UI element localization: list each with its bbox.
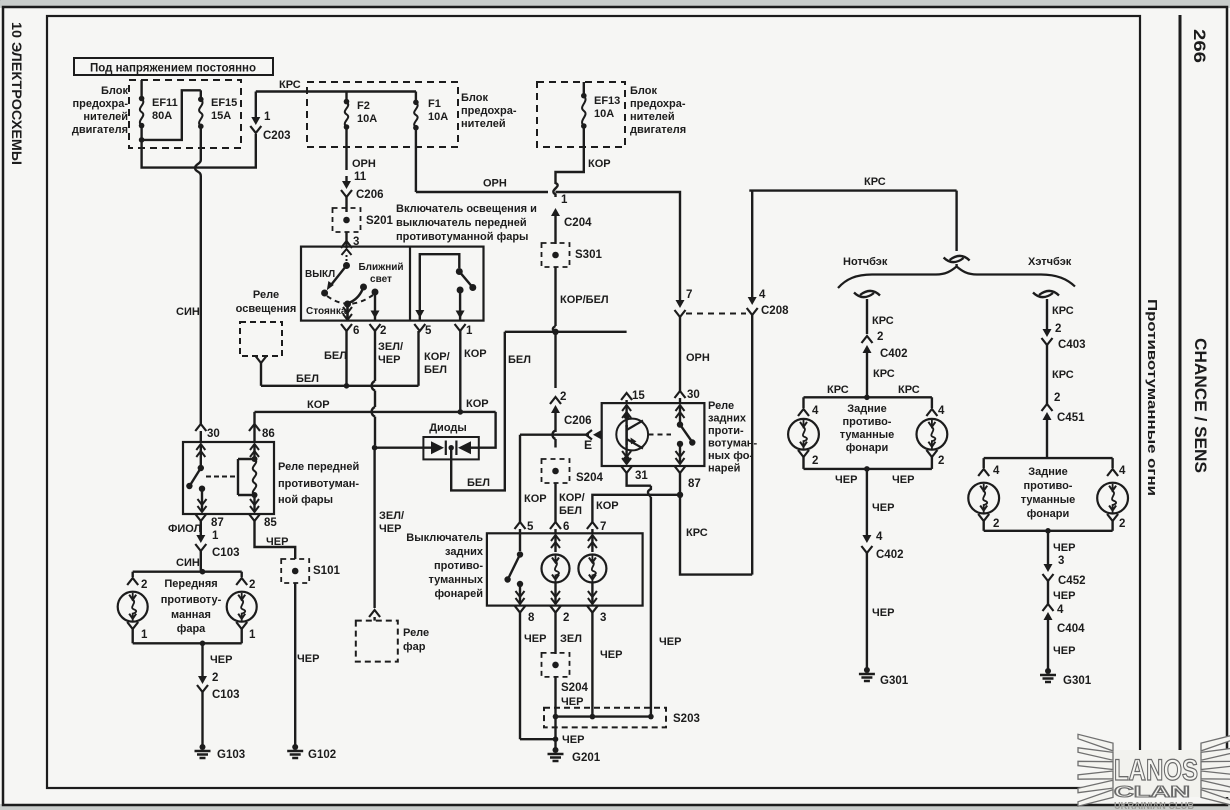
wire ORN F1 to C204 <box>415 128 417 192</box>
arrow into C206 <box>345 176 347 182</box>
wire C404 to G301 <box>1047 632 1049 669</box>
svg-text:1: 1 <box>561 194 568 206</box>
headlight switch box <box>301 247 484 321</box>
svg-text:C452: C452 <box>1058 575 1086 587</box>
svg-text:ВЫКЛ: ВЫКЛ <box>305 269 335 280</box>
svg-text:C103: C103 <box>212 547 240 559</box>
ground G201 <box>553 747 559 753</box>
break notchback <box>854 293 874 298</box>
arrow into C208 <box>751 196 753 298</box>
wire C206 jog over E <box>553 431 556 440</box>
svg-text:противотуманной фары: противотуманной фары <box>396 231 528 243</box>
wire EF11-EF15 link <box>142 90 201 140</box>
E arrow into relay <box>586 430 592 440</box>
svg-text:Задние: Задние <box>847 403 887 415</box>
connector C204 wave <box>553 183 557 197</box>
wire C203 bottom link <box>142 134 256 168</box>
wire S301 down KOR/BEL <box>554 267 556 326</box>
front fog lamp right <box>227 592 257 622</box>
connector hlamp L4 <box>978 469 989 476</box>
connector pin 6 <box>341 324 352 331</box>
front fog lamp left <box>118 592 148 622</box>
rear fog relay box <box>602 403 705 466</box>
svg-text:КРС: КРС <box>827 384 849 396</box>
switch arm <box>331 266 347 286</box>
relay sw contact top <box>198 465 204 471</box>
wire lamp top bus <box>804 396 932 398</box>
svg-text:10 ЭЛЕКТРОСХЕМЫ: 10 ЭЛЕКТРОСХЕМЫ <box>9 22 24 165</box>
svg-text:8: 8 <box>528 612 535 624</box>
headlight relay box (dashed) <box>356 621 398 662</box>
svg-text:манная: манная <box>171 609 211 621</box>
rear sw arm <box>509 555 521 579</box>
wire KOR/BEL through junction <box>553 326 556 332</box>
svg-text:ЧЕР: ЧЕР <box>1053 542 1075 554</box>
wire pin3r down <box>591 613 593 717</box>
svg-text:нарей: нарей <box>708 463 740 475</box>
svg-text:7: 7 <box>600 521 606 533</box>
wire ORN right run <box>556 192 681 196</box>
svg-text:Включатель освещения и: Включатель освещения и <box>396 203 537 215</box>
svg-text:2: 2 <box>563 612 569 624</box>
contact sw3 top <box>456 268 463 275</box>
svg-text:G103: G103 <box>217 749 245 761</box>
svg-text:проти-: проти- <box>708 425 744 437</box>
svg-text:85: 85 <box>264 517 277 529</box>
svg-text:двигателя: двигателя <box>72 124 128 136</box>
svg-text:КРС: КРС <box>1052 305 1074 317</box>
connector C452 <box>1043 574 1054 581</box>
svg-text:КОР/: КОР/ <box>559 492 585 504</box>
svg-text:266: 266 <box>1190 29 1209 63</box>
arrow sw right left leg <box>415 310 424 318</box>
fuse F1 10A <box>415 92 417 103</box>
svg-text:КОР: КОР <box>588 158 611 170</box>
svg-text:80A: 80A <box>152 110 172 122</box>
svg-text:КОР: КОР <box>464 348 487 360</box>
svg-text:Реле: Реле <box>708 400 734 412</box>
splice S201 <box>333 208 361 232</box>
relay dashed link <box>649 434 672 436</box>
connector 87r <box>675 466 686 473</box>
Q1 emitter out <box>625 445 627 459</box>
svg-text:4: 4 <box>1057 604 1064 616</box>
rear sw out <box>519 586 521 604</box>
svg-text:Передняя: Передняя <box>164 578 217 590</box>
connector C103 bottom <box>197 685 208 692</box>
wire fl left bot <box>131 629 133 643</box>
svg-text:EF15: EF15 <box>211 97 237 109</box>
wire lamp right bot <box>931 457 933 469</box>
wire lamp bottom bus <box>804 468 932 470</box>
wire C403 down <box>1046 345 1048 404</box>
wire break to brace <box>955 264 957 267</box>
svg-text:ЧЕР: ЧЕР <box>600 649 622 661</box>
svg-text:туманные: туманные <box>1021 494 1076 506</box>
wire fl right drop <box>240 572 242 577</box>
wire KRS top bus <box>256 90 416 92</box>
wire stoyanka out <box>346 306 348 320</box>
rear ind lamp 2 arrows <box>591 535 593 552</box>
svg-text:ЧЕР: ЧЕР <box>561 696 583 708</box>
svg-text:1: 1 <box>249 629 256 641</box>
connector 30 <box>195 424 206 431</box>
Q1 emitter <box>627 439 643 449</box>
splice S204 mid <box>542 459 570 483</box>
svg-text:противоту-: противоту- <box>161 594 222 606</box>
wire to G103 <box>201 692 203 745</box>
svg-text:ной фары: ной фары <box>278 494 333 506</box>
wire F2 down (ORN) <box>345 127 347 170</box>
contact sw3 out <box>457 287 464 294</box>
wire fl right bot <box>240 629 242 643</box>
wire hlamp right bot <box>1111 521 1113 531</box>
ground G301 notchback <box>864 667 870 673</box>
svg-text:2: 2 <box>380 325 386 337</box>
svg-text:свет: свет <box>370 274 392 285</box>
relay sw2 out arrow <box>679 444 681 464</box>
svg-text:G301: G301 <box>880 675 909 687</box>
wire pin1 out <box>459 290 461 312</box>
svg-text:фар: фар <box>403 641 426 653</box>
connector hlamp R2 <box>1107 514 1118 521</box>
switch arm common <box>342 249 352 255</box>
relay coil <box>237 459 239 495</box>
svg-text:CHANCE / SENS: CHANCE / SENS <box>1191 338 1209 473</box>
wire diode right link <box>471 447 479 449</box>
svg-text:G102: G102 <box>308 749 336 761</box>
svg-text:КРС: КРС <box>898 384 920 396</box>
wire EF11 feed <box>140 80 142 99</box>
title box Pod napryazheniem postoyanno <box>74 58 273 75</box>
connector lamp R2 <box>926 450 937 457</box>
arrow ORN down to 7 <box>679 196 681 301</box>
svg-text:Стоянка: Стоянка <box>306 306 347 317</box>
arrow hatch to C452 <box>1047 555 1049 565</box>
svg-text:C206: C206 <box>356 189 384 201</box>
svg-text:противо-: противо- <box>1024 480 1073 492</box>
engine fuse box (dashed) <box>129 80 241 148</box>
wire KRS right run <box>749 189 956 191</box>
svg-text:10A: 10A <box>428 111 448 123</box>
svg-text:1: 1 <box>466 325 473 337</box>
wire C204 to S301 <box>554 226 556 244</box>
wire lamp left bot <box>802 457 804 469</box>
svg-text:СИН: СИН <box>176 306 200 318</box>
rear ind lamp1 out <box>554 583 556 604</box>
svg-text:БЕЛ: БЕЛ <box>324 350 347 362</box>
svg-text:Задние: Задние <box>1028 466 1068 478</box>
contact VYKL <box>321 290 328 297</box>
diode D2 <box>458 441 471 454</box>
wire S204 to pin6r <box>554 483 556 522</box>
svg-text:ЗЕЛ: ЗЕЛ <box>560 633 582 645</box>
svg-text:4: 4 <box>876 531 883 543</box>
svg-text:ЧЕР: ЧЕР <box>524 633 546 645</box>
connector C206 mid <box>550 397 561 404</box>
top grey scan band <box>0 0 1230 8</box>
svg-text:ЧЕР: ЧЕР <box>892 474 914 486</box>
svg-text:Блок: Блок <box>101 85 128 97</box>
svg-text:5: 5 <box>527 521 534 533</box>
wire EF15 down with jog <box>195 126 201 180</box>
connector C403 <box>1042 338 1053 345</box>
wire C103 to lamps <box>200 551 202 572</box>
connector 85 <box>249 514 260 521</box>
relay sw arm <box>191 468 201 485</box>
rear sw contact in <box>519 533 521 551</box>
rear fog lamp left (hatchback) <box>968 483 999 514</box>
connector pin 2 <box>370 324 381 331</box>
connector lamp L4 <box>798 409 809 416</box>
svg-text:7: 7 <box>686 289 692 301</box>
svg-text:10A: 10A <box>357 113 377 125</box>
svg-text:туманные: туманные <box>840 429 895 441</box>
rear fog switch box <box>487 533 643 605</box>
svg-text:ОРН: ОРН <box>352 158 376 170</box>
svg-text:Нотчбэк: Нотчбэк <box>843 256 888 268</box>
arrow C204 up <box>554 215 556 226</box>
connector fl R2 <box>236 578 247 585</box>
relay sw2 contact bot <box>677 441 683 447</box>
relay 86 out arrow <box>253 495 255 512</box>
arrow E left <box>0 0 1 1</box>
svg-text:ЧЕР: ЧЕР <box>378 354 400 366</box>
svg-text:1: 1 <box>141 629 148 641</box>
wire C402l to G301 <box>866 553 868 668</box>
svg-text:ЧЕР: ЧЕР <box>562 734 584 746</box>
svg-text:2: 2 <box>560 391 566 403</box>
svg-text:КРС: КРС <box>279 79 301 91</box>
wire SIN down to 30 <box>200 180 202 424</box>
svg-text:СИН: СИН <box>176 557 200 569</box>
wire diode output BEL <box>451 332 505 491</box>
connector lamp R4 <box>926 409 937 416</box>
connector 87 <box>195 514 206 521</box>
wire KOR right bend <box>479 412 496 448</box>
svg-text:ЧЕР: ЧЕР <box>379 523 401 535</box>
wire EF13 down (KOR) <box>556 126 584 184</box>
svg-text:4: 4 <box>759 289 766 301</box>
svg-text:6: 6 <box>353 325 359 337</box>
svg-text:C451: C451 <box>1057 412 1085 424</box>
svg-text:ОРН: ОРН <box>686 352 710 364</box>
svg-text:ЗЕЛ/: ЗЕЛ/ <box>378 341 403 353</box>
wire ORN down to relay30 <box>679 322 681 391</box>
wire front lamp top bus <box>133 571 242 573</box>
bottom grey scan band <box>0 804 1230 810</box>
svg-text:туманных: туманных <box>428 574 483 586</box>
wire BEL horizontal <box>261 385 419 387</box>
svg-text:фонарей: фонарей <box>434 588 483 600</box>
svg-text:КРС: КРС <box>873 368 895 380</box>
svg-text:31: 31 <box>635 470 648 482</box>
switch right section path <box>420 254 460 313</box>
svg-text:C204: C204 <box>564 217 592 229</box>
svg-text:фонари: фонари <box>846 442 888 454</box>
connector pin 5 <box>414 324 425 331</box>
wire 31 down <box>627 473 651 486</box>
Q1 base bar <box>625 416 627 427</box>
svg-text:КРС: КРС <box>686 527 708 539</box>
wire KOR to 86 <box>253 431 255 442</box>
svg-text:87: 87 <box>688 478 701 490</box>
svg-text:КРС: КРС <box>1052 369 1074 381</box>
svg-text:S203: S203 <box>673 713 700 725</box>
arrow C206 mid up <box>554 412 556 432</box>
connector 3r <box>587 606 598 613</box>
wire notch down <box>866 469 868 528</box>
svg-text:ФИОЛ: ФИОЛ <box>168 523 201 535</box>
connector pin 3 <box>341 241 352 248</box>
fuse EF15 15A <box>200 90 202 99</box>
svg-text:G201: G201 <box>572 752 601 764</box>
fuse EF11 80A <box>139 96 145 102</box>
ground G301 hatchback <box>1045 668 1051 674</box>
svg-text:ЧЕР: ЧЕР <box>835 474 857 486</box>
svg-text:нителей: нителей <box>83 111 128 123</box>
svg-text:CLAN: CLAN <box>1114 784 1190 801</box>
connector C208 <box>747 308 758 315</box>
wire pin2 down <box>374 331 376 381</box>
svg-text:освещения: освещения <box>236 303 297 315</box>
svg-text:противотуман-: противотуман- <box>278 478 359 490</box>
relay sw2 arm <box>680 425 692 441</box>
svg-text:КОР: КОР <box>596 500 619 512</box>
svg-text:C203: C203 <box>263 130 291 142</box>
svg-text:4: 4 <box>1119 465 1126 477</box>
body style brace <box>838 267 1075 289</box>
wire hatch lamp top bus <box>984 457 1113 459</box>
splice S203 box <box>544 708 666 728</box>
svg-text:БЕЛ: БЕЛ <box>424 364 447 376</box>
fuse box (dashed) <box>307 82 458 147</box>
Q1 to pin31 arrow <box>625 459 627 464</box>
svg-text:ЧЕР: ЧЕР <box>1053 645 1075 657</box>
arrow C404 up <box>1047 619 1049 632</box>
front fog relay box <box>183 442 274 514</box>
wire KOR horizontal <box>255 411 496 413</box>
wire 87 down <box>679 473 681 495</box>
connector 8r <box>515 606 526 613</box>
svg-text:S101: S101 <box>313 565 340 577</box>
svg-text:Под напряжением постоянно: Под напряжением постоянно <box>90 63 256 75</box>
svg-text:КРС: КРС <box>864 176 886 188</box>
wire pin2 out <box>374 292 376 312</box>
svg-text:3: 3 <box>600 612 606 624</box>
svg-text:Противотуманные огни: Противотуманные огни <box>1145 299 1160 496</box>
svg-text:4: 4 <box>993 465 1000 477</box>
splice S101 <box>281 559 309 583</box>
svg-text:S204: S204 <box>561 682 588 694</box>
svg-text:Хэтчбэк: Хэтчбэк <box>1028 256 1072 268</box>
svg-text:БЕЛ: БЕЛ <box>559 505 582 517</box>
rear fog lamp right (hatchback) <box>1097 483 1128 514</box>
wire pin8 link <box>520 738 556 740</box>
connector 15 <box>621 393 632 400</box>
svg-text:2: 2 <box>212 672 218 684</box>
connector hlamp R4 <box>1107 469 1118 476</box>
transistor Q1 <box>616 419 648 451</box>
connector under lighting relay <box>256 356 267 363</box>
svg-text:1: 1 <box>264 111 271 123</box>
svg-text:Блок: Блок <box>630 85 657 97</box>
svg-text:F1: F1 <box>428 98 441 110</box>
svg-text:10A: 10A <box>594 108 614 120</box>
svg-text:ОРН: ОРН <box>483 178 507 190</box>
lighting relay box (dashed) <box>240 322 282 356</box>
wire hatch left drop <box>983 458 985 468</box>
relay 86 in arrow <box>253 444 255 459</box>
svg-text:2: 2 <box>1119 518 1125 530</box>
svg-text:86: 86 <box>262 428 275 440</box>
splice S204 low <box>542 653 570 677</box>
arrow into C203 <box>255 97 257 118</box>
svg-text:КОР: КОР <box>524 493 547 505</box>
solid arc blizhnij <box>349 290 363 304</box>
svg-text:БЕЛ: БЕЛ <box>467 477 490 489</box>
svg-text:5: 5 <box>425 325 432 337</box>
rear indicator lamp 1 <box>542 555 570 583</box>
svg-text:противо-: противо- <box>434 560 483 572</box>
svg-text:Реле: Реле <box>253 289 279 301</box>
svg-text:EF13: EF13 <box>594 95 620 107</box>
relay sw contact bot <box>199 486 205 492</box>
wire hatch down <box>1047 531 1049 555</box>
relay sw2 contact top <box>677 421 683 427</box>
svg-text:G301: G301 <box>1063 675 1092 687</box>
svg-text:2: 2 <box>812 455 818 467</box>
wire C452-C404 <box>1047 581 1049 604</box>
engine fuse box 2 (dashed) <box>537 82 625 147</box>
svg-text:ных фо-: ных фо- <box>708 450 753 462</box>
connector C206 <box>341 190 352 197</box>
svg-text:задних: задних <box>445 546 484 558</box>
LANOS CLAN watermark logo <box>1078 734 1230 810</box>
dashed travel arc <box>327 295 373 304</box>
svg-text:1: 1 <box>212 530 219 542</box>
svg-text:3: 3 <box>1058 555 1064 567</box>
svg-text:S301: S301 <box>575 249 602 261</box>
wire junction row <box>505 331 627 333</box>
relay coil link dash <box>206 476 238 478</box>
dashed link 7 to C208 <box>679 317 681 322</box>
svg-text:ЗЕЛ/: ЗЕЛ/ <box>379 510 404 522</box>
wire pin1 down <box>459 331 461 412</box>
svg-text:C403: C403 <box>1058 339 1086 351</box>
wire 87-row to pin7r <box>592 495 680 522</box>
connector 7r <box>587 522 598 529</box>
connector C203 <box>250 126 261 133</box>
svg-text:UKRAINIAN CLUB: UKRAINIAN CLUB <box>1114 801 1194 810</box>
wire E row <box>520 434 589 436</box>
connector hlamp L2 <box>978 514 989 521</box>
wire ZEL/CHER down <box>373 450 375 608</box>
connector fl L2 <box>127 578 138 585</box>
S203 internal bus <box>556 715 651 717</box>
svg-text:4: 4 <box>938 405 945 417</box>
ground G102 <box>292 744 298 750</box>
wire C208 drop <box>751 191 753 196</box>
svg-text:C103: C103 <box>212 689 240 701</box>
svg-text:ЧЕР: ЧЕР <box>659 636 681 648</box>
wire KOR to relay86 <box>253 412 255 431</box>
svg-text:фара: фара <box>177 623 206 635</box>
wire E to pin5 <box>519 435 521 522</box>
connector fl R1 <box>236 622 247 629</box>
svg-text:Диоды: Диоды <box>429 422 467 434</box>
svg-text:2: 2 <box>993 518 999 530</box>
